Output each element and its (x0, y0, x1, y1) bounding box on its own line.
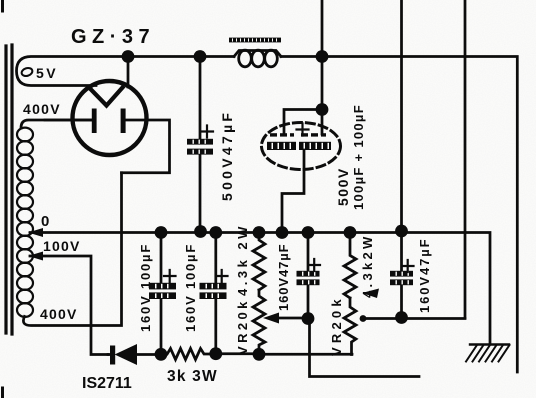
svg-text:400V: 400V (40, 306, 78, 322)
junction dots on 0V bus (155, 226, 168, 239)
choke L1 core bar (229, 38, 281, 43)
junction dot choke input (194, 50, 207, 63)
tap arrow 0 (28, 228, 43, 237)
resistor R3 4.3k2W #2 (344, 233, 356, 299)
svg-text:160V47µF: 160V47µF (417, 238, 432, 313)
wire top feed x=322 down to can (321, 0, 324, 134)
svg-text:VR20k: VR20k (329, 295, 344, 356)
wire 100V tap (30, 256, 108, 355)
scan artifact top left edge (1, 0, 4, 11)
junction dot can feed (316, 103, 329, 116)
wire can left section feed (284, 110, 322, 135)
wire bias rail up x=465 (464, 0, 467, 318)
svg-text:400V: 400V (23, 101, 61, 117)
wire right plate lead and route (122, 120, 170, 173)
scan artifact bottom left edge (1, 388, 4, 398)
can C2 plus sign (297, 124, 309, 136)
potentiometer VR2 20k (344, 298, 356, 355)
tap arrow 100V (28, 252, 43, 261)
capacitor C5 plus sign (309, 259, 321, 271)
wire bias output lead (310, 319, 420, 377)
junction dot above GZ-37 (122, 50, 135, 63)
wire 400V top tap to GZ-37 left plate (21, 120, 93, 128)
svg-text:5V: 5V (36, 65, 58, 81)
svg-text:500V47µF: 500V47µF (219, 110, 235, 201)
wire can minus lead (282, 150, 304, 232)
tube GZ-37 right plate (121, 109, 126, 134)
choke L1 coil (234, 51, 281, 57)
svg-text:160V 100µF: 160V 100µF (183, 243, 198, 332)
capacitor C3 160V100uF #1 rail (160, 233, 163, 355)
svg-text:4.3k2W: 4.3k2W (360, 233, 375, 298)
transformer HV secondary winding (17, 128, 33, 317)
wire 0V ground bus (30, 233, 490, 344)
svg-text:160V 100µF: 160V 100µF (138, 243, 153, 332)
capacitor C4 plates (200, 283, 227, 299)
capacitor C1 plus sign (201, 126, 213, 138)
capacitor C6 plus sign (402, 260, 414, 272)
VR1 wiper arrow (278, 317, 308, 320)
svg-text:100V: 100V (43, 238, 81, 254)
junction dot C5 bottom (302, 312, 315, 325)
ground symbol (470, 343, 509, 345)
svg-text:160V47µF: 160V47µF (276, 244, 291, 311)
wire bias bus (216, 352, 352, 355)
can C2 left section plates (267, 133, 296, 150)
diode D1 IS2711 (108, 353, 110, 356)
transformer T1 core (6, 45, 12, 334)
capacitor C6 160V47uF #2 rail (400, 0, 403, 318)
wire top B+ line (126, 57, 517, 373)
svg-text:GZ·37: GZ·37 (71, 26, 155, 48)
capacitor C5 160V47uF #1 rail (307, 233, 310, 319)
capacitor C5 plates (297, 271, 320, 285)
capacitor C4 plus sign (216, 270, 228, 282)
capacitor C3 plates (149, 283, 176, 299)
junction dot C6 bottom (395, 311, 408, 324)
capacitor C6 plates (390, 271, 413, 285)
capacitor can C2 500V 100uF+100uF outline (262, 123, 341, 170)
tube GZ-37 left plate (92, 109, 97, 134)
svg-text:4.3k 2W: 4.3k 2W (235, 223, 250, 296)
can C2 right section plates (299, 133, 331, 150)
capacitor C4 160V100uF #2 rail (214, 233, 217, 354)
resistor R1 3k3W (161, 349, 216, 360)
capacitor C3 plus sign (164, 270, 176, 282)
resistor R2 4.3k2W #1 (253, 233, 265, 291)
potentiometer VR1 20k (253, 290, 265, 355)
svg-text:500V: 500V (335, 167, 351, 206)
tube GZ-37 envelope (73, 81, 147, 155)
svg-text:3k 3W: 3k 3W (167, 368, 218, 385)
capacitor C1 500V47uF rail (199, 57, 202, 233)
transformer 5V winding (17, 57, 127, 86)
svg-text:IS2711: IS2711 (82, 375, 132, 392)
svg-text:100µF + 100µF: 100µF + 100µF (351, 104, 366, 210)
wire left plate lead (45, 119, 93, 122)
wire 400V bottom tap to right plate (23, 173, 121, 326)
tube GZ-37 filament (90, 88, 123, 106)
capacitor C1 500V47uF plates (187, 139, 213, 155)
svg-text:VR20k: VR20k (235, 298, 250, 355)
VR2 wiper arrow (362, 317, 465, 320)
wire filament feed from top line (127, 57, 130, 88)
junction dot choke output (316, 50, 329, 63)
svg-text:0: 0 (41, 213, 49, 230)
junction dots on bias bus (155, 348, 168, 361)
